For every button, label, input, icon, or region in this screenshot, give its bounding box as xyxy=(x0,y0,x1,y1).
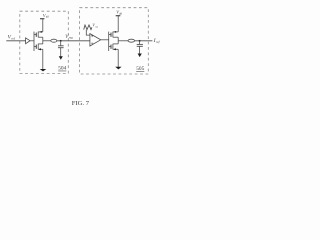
transistor M3 (top, right box) xyxy=(111,32,118,41)
junction M3 drain xyxy=(115,31,117,33)
capacitor C2 xyxy=(137,41,143,47)
svg-text:ref: ref xyxy=(156,40,161,44)
node Vreg label xyxy=(65,35,73,40)
wire op-amp out to gate line xyxy=(101,39,109,41)
transistor M4 (bottom, right box) xyxy=(111,41,118,50)
svg-text:504: 504 xyxy=(58,66,66,72)
wire Iref out xyxy=(135,40,153,42)
svg-text:dd: dd xyxy=(119,13,122,16)
wire buffer to gate line xyxy=(30,40,34,42)
svg-text:ref: ref xyxy=(95,25,98,28)
wire drains to output oval right xyxy=(118,40,128,42)
wire Vref input xyxy=(6,40,25,42)
transistor M1 (top, left box) xyxy=(36,32,43,41)
caption FIG. 7 xyxy=(72,100,90,107)
wire Rref to op-amp input xyxy=(86,30,90,35)
svg-text:ref: ref xyxy=(11,37,16,41)
resistor oval (right output) xyxy=(128,39,135,42)
capacitor C1 xyxy=(58,41,64,48)
arrow M2 source xyxy=(38,48,41,50)
label 505 xyxy=(136,66,144,72)
label Rref xyxy=(92,24,98,29)
ground C2 xyxy=(138,46,142,57)
svg-text:FIG. 7: FIG. 7 xyxy=(72,100,90,107)
op-amp input polarity marks xyxy=(91,35,93,43)
power rail Vdd left xyxy=(40,19,44,32)
wire drains to output oval xyxy=(43,40,51,42)
right dashed box 505 xyxy=(80,8,149,74)
wire Vreg xyxy=(57,40,90,42)
ground M4 source xyxy=(115,49,121,69)
ground C1 xyxy=(59,48,63,60)
wire gate line left xyxy=(34,32,36,51)
power rail Vdd right xyxy=(116,16,121,32)
node Iref label xyxy=(153,38,161,44)
buffer A1 xyxy=(26,38,30,44)
svg-text:reg: reg xyxy=(69,36,73,40)
wire gate line right xyxy=(109,32,111,51)
label 504 xyxy=(58,66,66,72)
op-amp U1 xyxy=(90,34,101,46)
junction output right xyxy=(139,40,141,42)
resistor oval (left output) xyxy=(51,39,57,42)
left dashed box 504 xyxy=(20,11,69,73)
svg-text:505: 505 xyxy=(136,66,144,72)
ground M2 source xyxy=(40,49,47,71)
resistor Rref zigzag xyxy=(84,25,92,30)
node Vref xyxy=(8,35,16,41)
arrow M4 source xyxy=(113,48,116,50)
svg-text:dd: dd xyxy=(46,16,49,19)
transistor M2 (bottom, left box) xyxy=(36,41,43,50)
junction Vreg xyxy=(60,40,62,42)
junction M1 drain xyxy=(40,31,42,33)
